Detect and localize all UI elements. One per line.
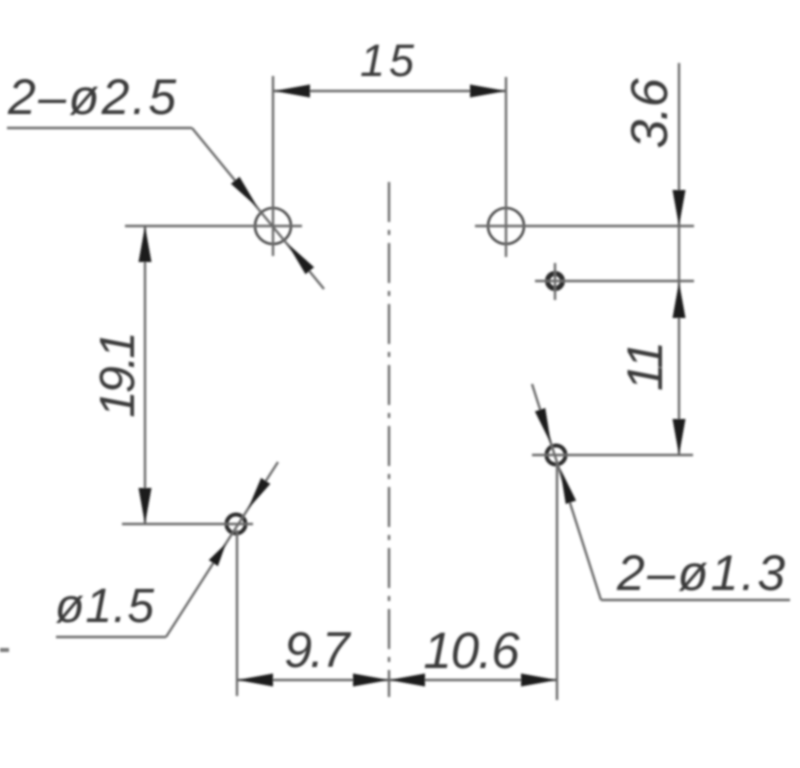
wire D vertical crosshair tick: [554, 263, 556, 300]
svg-text:9.7: 9.7: [284, 622, 352, 678]
leader 2-d2.5 underline: [7, 127, 192, 129]
dimension 10.6 left arrow at centerline: [389, 674, 425, 687]
hole H1 big circle top-left: [255, 208, 291, 244]
dimension 15 line: [274, 90, 506, 92]
svg-text:15: 15: [360, 35, 418, 86]
dimension 11 down arrow: [673, 419, 686, 455]
dimension 11 up arrow: [673, 282, 686, 318]
leader 2-d2.5 lower arrow: [287, 243, 314, 274]
dimension 10.6 right arrow: [521, 674, 557, 687]
centerline stub at left edge: [0, 648, 9, 652]
wire H2 vertical crosshair / 15 right extension: [505, 77, 507, 257]
leader 2-d1.3 lower arrow: [560, 468, 576, 504]
dimension 15 right arrow: [470, 85, 506, 98]
dimension 19.1 bottom arrow: [139, 488, 152, 524]
leader d1.5 underline: [56, 636, 166, 638]
leader 2-d2.5 diagonal: [192, 128, 324, 289]
leader d1.5 upper arrow: [248, 478, 270, 509]
svg-text:11: 11: [617, 343, 673, 391]
wire H2 horizontal crosshair extending to 3.6 dimension: [475, 225, 694, 227]
wire H1 horizontal crosshair / 19.1 top extension: [125, 225, 302, 227]
dimension 3.6 / 11 vertical line: [678, 63, 680, 455]
wire H3 horizontal / 19.1 bottom extension: [122, 523, 253, 525]
leader 2-d1.3 upper arrow: [535, 408, 551, 444]
dimension 15 left arrow: [274, 85, 310, 98]
hole H3 small circle bottom-left: [227, 515, 246, 534]
leader 2-d1.3 underline: [601, 599, 790, 601]
svg-text:2–ø1.3: 2–ø1.3: [616, 545, 788, 601]
wire H3 vertical / 9.7 left extension: [236, 530, 238, 696]
leader d1.5 lower arrow: [209, 544, 226, 567]
dimension 19.1 top arrow: [139, 226, 152, 262]
svg-text:ø1.5: ø1.5: [55, 580, 155, 633]
dimension 3.6 down arrow: [673, 190, 686, 226]
hole H4 small circle bottom-right: [547, 446, 566, 465]
wire H1 vertical crosshair / 15 left extension: [272, 76, 274, 256]
leader 2-d2.5 upper arrow: [231, 177, 258, 208]
svg-text:2–ø2.5: 2–ø2.5: [7, 69, 179, 125]
svg-text:10.6: 10.6: [423, 622, 520, 679]
hole D small center-pin circle right: [548, 274, 563, 289]
centerline vertical dash-dot: [388, 182, 390, 697]
svg-text:19.1: 19.1: [91, 334, 145, 417]
dimension 9.7 left arrow: [237, 674, 273, 687]
svg-text:3.6: 3.6: [621, 78, 679, 148]
wire H4 horizontal line to 11 dimension: [532, 454, 693, 456]
dimension 9.7 right arrow at centerline: [353, 674, 389, 687]
wire H4 vertical / 10.6 right extension: [556, 462, 558, 700]
hole H2 big circle top-right: [488, 208, 524, 244]
leader 2-d1.3 diagonal: [532, 384, 601, 600]
dimension 9.7 / 10.6 bottom line: [237, 679, 557, 681]
dimension 19.1 line: [144, 226, 146, 524]
leader d1.5 diagonal: [166, 462, 278, 637]
wire D horizontal line to 11 dimension: [535, 280, 694, 282]
